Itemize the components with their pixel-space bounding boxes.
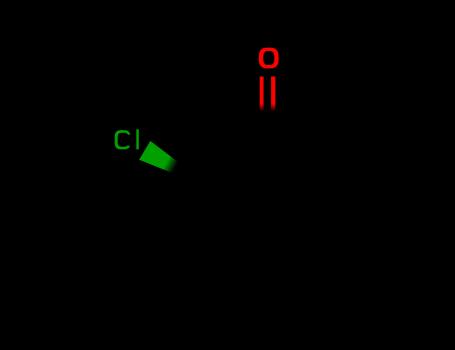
atom label Cl : letter C [115, 130, 131, 149]
atom label O (carbonyl oxygen) [259, 48, 279, 69]
atom label Cl : letter l [136, 129, 139, 149]
C=O double bond (left line) [260, 77, 264, 112]
atom label Cl : notch to open the C [128, 135, 133, 146]
wedge bond C2-Cl (stereo bond) [139, 141, 182, 177]
C=O double bond (right line) [271, 77, 275, 112]
